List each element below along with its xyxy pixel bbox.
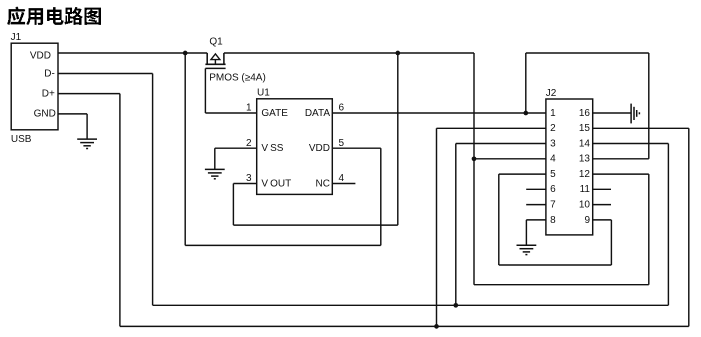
svg-text:4: 4 — [550, 154, 556, 165]
wire J1.VDD to Q1 source — [58, 52, 207, 54]
svg-text:PMOS (≥4A): PMOS (≥4A) — [209, 73, 266, 84]
ground J2 pin 16 (sideways) — [631, 104, 639, 124]
wire D+ bottom run — [120, 325, 689, 327]
wire D- bottom run — [153, 304, 669, 306]
wire U1.VDD pin 5 — [332, 147, 381, 149]
wire J2 pin 6 stub — [526, 188, 546, 190]
svg-text:1: 1 — [246, 103, 252, 114]
svg-text:2: 2 — [246, 138, 252, 149]
svg-text:15: 15 — [579, 123, 591, 134]
svg-text:13: 13 — [579, 154, 591, 165]
svg-text:10: 10 — [579, 200, 591, 211]
svg-text:4: 4 — [339, 173, 345, 184]
ground J1 — [77, 139, 97, 148]
wire U1.DATA to J2 pin 1 — [332, 112, 546, 114]
connector J2 — [546, 88, 593, 235]
svg-text:U1: U1 — [257, 88, 270, 99]
wire D- to J2 pin 3 — [455, 144, 457, 306]
svg-text:8: 8 — [550, 215, 556, 226]
svg-text:16: 16 — [579, 108, 591, 119]
wire U1.VOUT pin 3 — [232, 184, 234, 226]
svg-text:J2: J2 — [546, 88, 557, 99]
wire J2 pin 9 — [593, 219, 612, 221]
svg-text:9: 9 — [584, 215, 590, 226]
wire DATA to J2 pin 13 — [648, 53, 650, 159]
svg-text:5: 5 — [550, 169, 556, 180]
svg-text:3: 3 — [246, 173, 252, 184]
svg-text:D+: D+ — [42, 88, 55, 99]
title 应用电路图 — [7, 7, 101, 25]
wire Q1 gate to U1 pin 1 — [204, 68, 206, 113]
svg-text:12: 12 — [579, 169, 591, 180]
ground J2 pin 8 — [517, 245, 537, 254]
svg-text:14: 14 — [579, 138, 591, 149]
wire J2 pin 4 — [474, 158, 546, 160]
transistor Q1 — [205, 37, 225, 69]
node DATA junction — [523, 111, 528, 116]
svg-text:7: 7 — [550, 200, 556, 211]
svg-text:J1: J1 — [11, 32, 22, 43]
wire U1.VSS pin 2 — [215, 147, 257, 149]
connector J1 — [11, 32, 58, 145]
svg-text:DATA: DATA — [305, 108, 331, 119]
svg-text:VDD: VDD — [30, 50, 51, 61]
svg-text:2: 2 — [550, 123, 556, 134]
node VOUT junction — [395, 51, 400, 56]
svg-text:USB: USB — [11, 134, 32, 145]
wire VBUS up to U1 pin 5 — [380, 148, 382, 245]
svg-text:V SS: V SS — [261, 143, 283, 154]
svg-text:VDD: VDD — [309, 143, 330, 154]
wire pin4 bottom run to pin 12 — [474, 284, 649, 286]
svg-text:V OUT: V OUT — [261, 178, 291, 189]
ic U1 — [257, 88, 333, 195]
wire D+ to J2 pin 2 — [436, 128, 438, 326]
svg-text:6: 6 — [339, 103, 345, 114]
svg-text:Q1: Q1 — [209, 37, 223, 48]
wire J2 pin 11 stub — [593, 188, 611, 190]
svg-text:1: 1 — [550, 108, 556, 119]
wire D- to J2 pin 14 — [667, 144, 669, 306]
wire VBUS branch down — [184, 53, 186, 245]
wire J1.D- — [58, 73, 153, 75]
svg-text:GND: GND — [34, 108, 56, 119]
svg-text:5: 5 — [339, 138, 345, 149]
wire J2 pin 12 — [593, 173, 649, 175]
wire VOUT bottom run — [233, 224, 397, 226]
wire DATA branch up — [525, 53, 527, 113]
node pin4 junction — [472, 156, 477, 161]
wire J2 pin 16 to ground — [593, 112, 631, 114]
wire J1.GND — [58, 113, 87, 115]
node D+ junction — [434, 324, 439, 329]
wire J2 pin 8 to ground — [526, 219, 546, 221]
ground U1 VSS — [205, 169, 225, 178]
wire J2 pin 7 stub — [526, 204, 546, 206]
wire Q1 drain to J2 pin 4 (top run) — [224, 52, 474, 54]
node D- junction — [453, 303, 458, 308]
svg-text:3: 3 — [550, 138, 556, 149]
node VBUS junction — [183, 51, 188, 56]
svg-text:D-: D- — [44, 68, 55, 79]
wire Q1 drain down to J2 pin 4 — [473, 53, 475, 285]
wire DATA top run — [526, 52, 649, 54]
wire J2 pin 5 to pin 9 — [499, 173, 546, 175]
svg-text:GATE: GATE — [261, 108, 288, 119]
wire D+ to J2 pin 15 — [688, 128, 690, 326]
wire J1.D+ — [58, 93, 120, 95]
svg-text:6: 6 — [550, 184, 556, 195]
wire U1.NC pin 4 stub — [332, 183, 355, 185]
wire VBUS bottom run — [185, 244, 381, 246]
wire VOUT riser — [397, 53, 399, 225]
wire J2 pin 10 stub — [593, 204, 611, 206]
svg-text:11: 11 — [580, 184, 591, 195]
svg-text:NC: NC — [316, 178, 330, 189]
